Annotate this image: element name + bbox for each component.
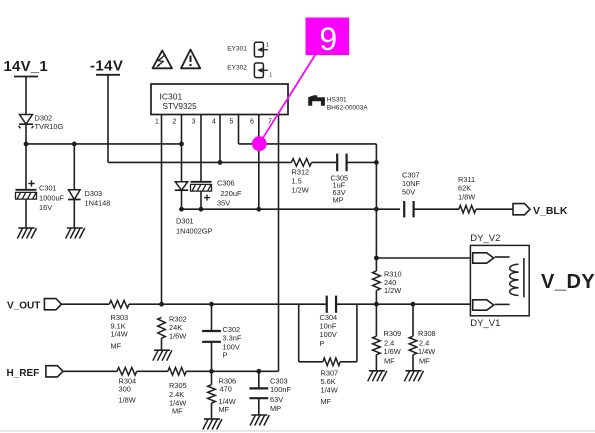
resistor R309 (373, 336, 381, 355)
ground under R306 (204, 418, 220, 420)
ground under C303 (251, 414, 267, 416)
node D301 rail (179, 207, 184, 212)
svg-text:MP: MP (270, 404, 281, 413)
svg-text:35V: 35V (217, 199, 230, 208)
wire pin 2 down (181, 115, 183, 182)
wire HREF to C303 (258, 371, 260, 388)
node pin6 rail (256, 207, 261, 212)
svg-text:V_BLK: V_BLK (533, 205, 568, 217)
svg-text:TVR10G: TVR10G (35, 122, 64, 131)
warning triangle caution (181, 50, 200, 69)
svg-text:1/6W: 1/6W (169, 332, 186, 341)
wire DY pin V2 stub (495, 256, 510, 258)
wire R310 to VOUT line (375, 290, 377, 304)
supply bar -14V (96, 74, 120, 76)
wire 14V bus (26, 143, 182, 145)
wire C301 to ground (25, 199, 27, 228)
callout box 9 (306, 18, 350, 56)
svg-text:220uF: 220uF (221, 189, 242, 198)
capacitor C306 (191, 181, 212, 183)
resistor R302 (158, 317, 166, 338)
svg-text:63V: 63V (270, 395, 283, 404)
ground under C301 (19, 227, 35, 229)
diode D303 (69, 190, 81, 200)
wire pin5 to corner (239, 143, 377, 145)
wire VOUT to DY_V1 (413, 303, 470, 305)
wire R302 to ground (161, 338, 163, 350)
wire C303 to ground (258, 398, 260, 415)
svg-text:4: 4 (212, 118, 216, 125)
svg-text:R305: R305 (169, 381, 187, 390)
node C306 rail (199, 207, 204, 212)
svg-text:470: 470 (220, 385, 232, 394)
wire -14V rail (108, 161, 291, 163)
svg-text:1N4002GP: 1N4002GP (176, 227, 213, 236)
wire C306 to rail (200, 191, 202, 209)
capacitor C304 (326, 296, 328, 313)
resistor R308 (409, 336, 417, 355)
wire R307 lead left (299, 361, 323, 363)
supply bar 14V_1 (14, 76, 38, 78)
svg-text:3.3nF: 3.3nF (223, 334, 242, 343)
svg-text:EY302: EY302 (227, 65, 247, 72)
wire bus corner down (375, 144, 377, 163)
svg-text:D301: D301 (176, 217, 194, 226)
capacitor C303 (249, 387, 268, 389)
wire node to pin7 corner (259, 370, 279, 372)
connector DY body (470, 245, 529, 315)
wire D302 to node (25, 124, 27, 144)
node D303 top (72, 142, 77, 147)
wire R307 lead right (340, 361, 357, 363)
diode D301 (175, 182, 187, 190)
svg-text:1: 1 (266, 43, 269, 49)
node VBLK rail junction (374, 207, 379, 212)
port V_BLK (513, 204, 530, 215)
svg-text:D303: D303 (85, 189, 103, 198)
svg-text:1N4148: 1N4148 (85, 199, 111, 208)
diode D302 (20, 115, 33, 125)
svg-text:MF: MF (419, 357, 430, 366)
svg-text:3: 3 (192, 118, 196, 125)
node C303 top (256, 369, 261, 374)
node R308 top (411, 302, 416, 307)
resistor R312 (291, 159, 311, 167)
wire pin 7 down (278, 115, 280, 372)
capacitor C307 (403, 201, 405, 217)
svg-text:1/4W: 1/4W (321, 386, 338, 395)
svg-text:V_OUT: V_OUT (7, 301, 40, 312)
svg-text:R308: R308 (418, 329, 436, 338)
wire C304 to R308 node (336, 303, 413, 305)
svg-text:1/6W: 1/6W (384, 347, 401, 356)
resistor R306 (208, 385, 216, 403)
port V_OUT (44, 299, 61, 310)
wire D303 to ground (73, 200, 75, 228)
capacitor C301 polarity + (28, 183, 34, 185)
wire R308 to ground (412, 355, 414, 371)
wire V_OUT to R303 (61, 303, 109, 305)
wire pin 1 down (161, 115, 163, 305)
svg-text:R312: R312 (292, 168, 310, 177)
svg-text:1/4W: 1/4W (111, 330, 128, 339)
svg-text:C301: C301 (39, 184, 57, 193)
node pin2 bus end (179, 142, 184, 147)
svg-text:BH62-00003A: BH62-00003A (327, 105, 368, 112)
wire pin 3 down (200, 115, 202, 182)
resistor R303 (109, 300, 129, 308)
svg-text:1/8W: 1/8W (458, 193, 475, 202)
wire C302 bottom lead (211, 342, 213, 372)
wire node to C301 (25, 144, 27, 190)
svg-text:IC301: IC301 (160, 92, 183, 102)
svg-text:50V: 50V (402, 188, 415, 197)
svg-text:-14V: -14V (90, 58, 123, 75)
svg-text:1/2W: 1/2W (292, 186, 309, 195)
resistor R307 (323, 358, 340, 366)
wire HREF to R306 (211, 371, 213, 384)
node pin4 on -14V rail (218, 160, 223, 165)
svg-text:R309: R309 (384, 329, 402, 338)
wire VBLK rail (182, 208, 401, 210)
wire DY pin V1 stub (495, 303, 510, 305)
svg-text:MF: MF (384, 357, 395, 366)
node DY_V2 branch (374, 256, 379, 261)
wire R307 loop left (298, 304, 300, 362)
svg-text:EY301: EY301 (227, 45, 247, 52)
svg-text:1: 1 (155, 118, 159, 125)
node C305 corner (374, 160, 379, 165)
svg-text:14V_1: 14V_1 (4, 58, 48, 75)
svg-text:MF: MF (111, 342, 122, 351)
capacitor C305 (336, 154, 338, 172)
wire R303 to C302 node (129, 303, 212, 305)
wire R304 to R305 (137, 370, 168, 372)
connector EY301 (254, 42, 263, 57)
svg-text:62K: 62K (458, 184, 471, 193)
wire C307 to R311 (414, 208, 459, 210)
node R310 VOUT (374, 302, 379, 307)
svg-text:HS301: HS301 (327, 96, 347, 103)
svg-text:DY_V2: DY_V2 (470, 233, 500, 244)
svg-text:1000uF: 1000uF (39, 194, 65, 203)
svg-text:V_DY: V_DY (541, 271, 595, 293)
wire VOUT to C304 loop (212, 303, 328, 305)
resistor R304 (117, 368, 137, 376)
callout leader line (259, 52, 317, 144)
wire to DY_V2 branch (375, 209, 377, 258)
svg-text:MF: MF (321, 397, 332, 406)
svg-text:1/4W: 1/4W (418, 347, 435, 356)
connector DY pin V2 (473, 253, 494, 263)
ground under D303 (67, 227, 83, 229)
node C302 top (209, 302, 214, 307)
wire pin 4 down (219, 115, 221, 163)
wire R308 down (412, 304, 414, 336)
wire to VBLK rail (375, 162, 377, 209)
svg-text:MF: MF (172, 407, 183, 416)
ground under R302 (154, 349, 170, 351)
ground under R308 (406, 370, 422, 372)
wire pin 6 down (258, 115, 260, 210)
ground under R309 (369, 370, 385, 372)
svg-text:100V: 100V (320, 330, 337, 339)
wire R306 to ground (211, 403, 213, 419)
node 14V junction (24, 142, 29, 147)
svg-text:16V: 16V (39, 203, 52, 212)
op-amp IC301 body (151, 84, 288, 115)
svg-text:9: 9 (319, 21, 337, 57)
svg-text:1/2W: 1/2W (384, 286, 401, 295)
capacitor C301 (16, 189, 37, 191)
svg-text:STV9325: STV9325 (163, 102, 198, 111)
svg-text:1: 1 (269, 73, 272, 79)
node pin1 VOUT (159, 302, 164, 307)
wire C305 to corner (347, 161, 377, 163)
svg-text:1/8W: 1/8W (119, 396, 136, 405)
port H_REF (46, 366, 63, 377)
svg-text:MF: MF (219, 405, 230, 414)
wire R311 to V_BLK tag (476, 208, 513, 210)
warning triangle high voltage (153, 51, 173, 69)
callout node dot (252, 136, 267, 151)
svg-text:MP: MP (333, 196, 344, 205)
node R306 top (209, 369, 214, 374)
svg-text:1.5: 1.5 (292, 177, 302, 186)
wire node to D303 (73, 144, 75, 190)
wire D301 to rail (181, 191, 183, 209)
svg-text:100nF: 100nF (270, 385, 291, 394)
svg-text:6: 6 (250, 118, 254, 125)
inductor deflection yoke coil (510, 264, 519, 272)
wire R305 to node (186, 370, 259, 372)
wire DY_V2 line (376, 257, 470, 259)
yoke core line (523, 258, 525, 297)
connector EY302 (254, 63, 263, 78)
svg-text:5: 5 (230, 118, 234, 125)
wire pin 5 down (238, 115, 240, 144)
wire R312 to C305 (312, 161, 338, 163)
resistor R310 (373, 271, 381, 290)
svg-text:P: P (223, 351, 228, 360)
resistor R305 (168, 368, 186, 376)
svg-text:DY_V1: DY_V1 (470, 318, 500, 329)
wire R309 to ground (375, 355, 377, 371)
wire H_REF to R304 (63, 370, 117, 372)
capacitor C306 polarity + (204, 197, 210, 199)
wire to R309 (375, 304, 377, 336)
wire to R310 (375, 258, 377, 271)
connector DY pin V1 (473, 300, 494, 310)
capacitor C302 (202, 330, 221, 332)
wire -14V down (107, 75, 109, 163)
wire 14V_1 to D302 (25, 77, 27, 115)
svg-text:300: 300 (119, 385, 131, 394)
scan artifact line (0, 430, 595, 432)
svg-text:2: 2 (173, 118, 177, 125)
resistor R311 (459, 205, 476, 213)
svg-text:C306: C306 (217, 179, 235, 188)
heatsink HS301 (308, 95, 325, 106)
wire C302 top lead (211, 304, 213, 331)
wire R307 loop right (356, 304, 358, 362)
svg-text:H_REF: H_REF (7, 368, 40, 379)
svg-text:P: P (320, 339, 325, 348)
